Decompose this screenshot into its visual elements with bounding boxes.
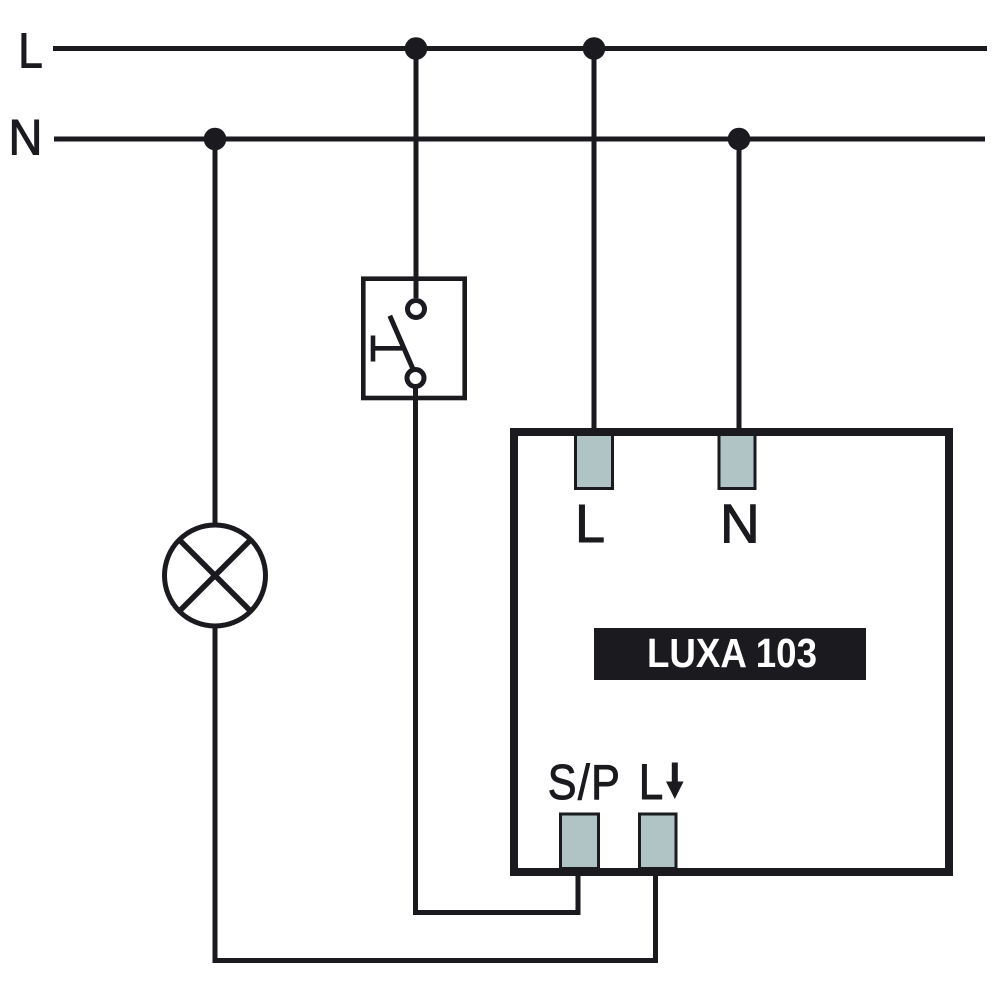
svg-text:L: L	[18, 23, 43, 78]
svg-text:L: L	[575, 494, 605, 554]
svg-text:LUXA 103: LUXA 103	[647, 630, 817, 676]
svg-text:S/P: S/P	[548, 754, 621, 809]
svg-text:N: N	[720, 493, 760, 555]
svg-text:N: N	[9, 110, 43, 166]
svg-text:L: L	[639, 753, 663, 809]
